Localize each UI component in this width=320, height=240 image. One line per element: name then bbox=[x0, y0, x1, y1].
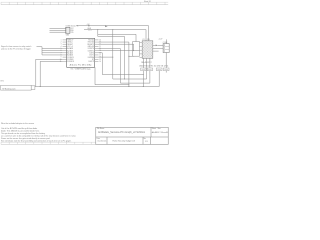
svg-text:21: 21 bbox=[99, 46, 101, 48]
svg-text:Wire the included adapter to t: Wire the included adapter to the sensor bbox=[1, 122, 34, 125]
svg-text:01-Gen-11: 01-Gen-11 bbox=[98, 141, 107, 143]
U1 right pin stubs bbox=[95, 40, 99, 62]
svg-text:Arduino Pro Mini 328p: Arduino Pro Mini 328p bbox=[70, 64, 92, 67]
U1 right pin names bbox=[87, 40, 94, 64]
sheet frame top zone strip bbox=[1, 2, 168, 4]
wire U1 pin 16 stub bbox=[99, 56, 113, 58]
svg-text:2: 2 bbox=[66, 30, 67, 32]
svg-text:CON3 Serial-TTL: CON3 Serial-TTL bbox=[66, 25, 79, 28]
battery BT1 plug bbox=[31, 86, 35, 90]
U1 right pin numbers bbox=[99, 39, 101, 63]
relay K1 left pin stubs bbox=[140, 43, 143, 58]
junction arrow on VCC run bbox=[105, 25, 107, 27]
U1 left pin stubs bbox=[63, 40, 67, 62]
svg-text:D8/ICP: D8/ICP bbox=[89, 61, 95, 63]
svg-text:See schematic note for final a: See schematic note for final assembly an… bbox=[1, 139, 72, 142]
U1 left pin names bbox=[67, 39, 75, 64]
transistor Q1 bbox=[147, 68, 152, 71]
svg-text:D11MOS: D11MOS bbox=[67, 61, 75, 63]
svg-text:File Name: File Name bbox=[97, 128, 104, 130]
wire U1 pin 23 to GND rail vertical bbox=[99, 42, 129, 86]
junction node pin16/GND drop bbox=[112, 57, 113, 58]
connector P1 (3-pin serial header) wires bbox=[50, 28, 66, 32]
relay K1 bottom pin wires bbox=[143, 53, 166, 87]
relay contact symbols bbox=[153, 39, 167, 51]
IC U1 Arduino Pro Mini body bbox=[67, 38, 95, 67]
relay K1 coil hatched body bbox=[142, 41, 153, 59]
svg-text:1/1: 1/1 bbox=[145, 141, 148, 143]
svg-text:BT1: BT1 bbox=[1, 81, 4, 83]
svg-text:Home Security Gadget vs3: Home Security Gadget vs3 bbox=[113, 140, 136, 143]
svg-text:K1: K1 bbox=[143, 39, 145, 41]
relay K1 coil frame bbox=[133, 42, 140, 57]
wire from power cluster down left of relay bbox=[98, 34, 125, 79]
svg-text:3: 3 bbox=[66, 32, 67, 34]
diode D1 bbox=[141, 68, 146, 71]
svg-text:and out to the PC interface if: and out to the PC interface if trigger bbox=[1, 48, 31, 51]
sheet frame bottom zone strip bbox=[1, 142, 96, 144]
svg-text:Size: Size bbox=[158, 128, 161, 130]
sensor wires to U1 bbox=[37, 47, 63, 55]
wire row7 routed down bbox=[99, 53, 144, 75]
svg-text:5V / 16MHz ATmega: 5V / 16MHz ATmega bbox=[70, 68, 91, 71]
wire GND top run bbox=[84, 30, 146, 41]
terminal block J1 bbox=[163, 44, 169, 53]
svg-text:14: 14 bbox=[99, 61, 101, 63]
wire from power cluster to relay coil (upper) bbox=[98, 30, 136, 42]
svg-text:9V Battery pack: 9V Battery pack bbox=[2, 87, 15, 90]
svg-text:17: 17 bbox=[99, 55, 101, 57]
power flag cluster top-right of U1 bbox=[89, 30, 91, 31]
U1 left pin numbers bbox=[60, 39, 62, 63]
svg-text:15: 15 bbox=[99, 59, 101, 61]
connector P1 body bbox=[66, 27, 70, 33]
LED D2 bbox=[163, 68, 169, 71]
svg-text:A4 ANSI Y14-xxxM: A4 ANSI Y14-xxxM bbox=[152, 131, 168, 134]
svg-text:RELAY-SPDT: RELAY-SPDT bbox=[141, 61, 151, 64]
battery BT1 body bbox=[1, 85, 32, 90]
svg-text:1N4007 BC547 R1 1k0 LED GN 12V: 1N4007 BC547 R1 1k0 LED GN 12Vdc bbox=[139, 65, 169, 67]
wire GND drop to lower bus bbox=[113, 30, 147, 79]
component inner marks bbox=[142, 68, 168, 70]
junction node on GND top run bbox=[112, 29, 113, 30]
contact arrow bbox=[156, 45, 158, 47]
wire VCC top run to K1 terminal bbox=[77, 26, 149, 41]
wire row3 to coil loop bbox=[99, 44, 134, 50]
resistor R1 bbox=[156, 68, 162, 71]
GND bus wire to relay area bbox=[35, 86, 159, 88]
wires U1 lower-left pins down to GND bus bbox=[36, 59, 63, 86]
wire row6 to relay coil bbox=[99, 50, 140, 52]
svg-text:ArdRelais_Sensore-PC-Graph_v2.: ArdRelais_Sensore-PC-Graph_v2.SchDoc bbox=[98, 131, 146, 134]
wire stub to relay frame bbox=[129, 55, 134, 57]
svg-text:24: 24 bbox=[99, 39, 101, 41]
svg-text:CON2: CON2 bbox=[163, 42, 168, 44]
wire IC gnd to bus bbox=[95, 67, 129, 84]
svg-text:1: 1 bbox=[66, 28, 67, 30]
title block bbox=[96, 127, 168, 144]
junction dot GND bus bbox=[40, 86, 41, 87]
junction dots bottom bus bbox=[143, 86, 144, 87]
power flag symbol on +5V wire bbox=[88, 25, 89, 26]
junction node on GND rail bbox=[128, 56, 129, 57]
junction node B-drop bbox=[97, 29, 98, 30]
wire row5 routed down bbox=[99, 49, 150, 84]
